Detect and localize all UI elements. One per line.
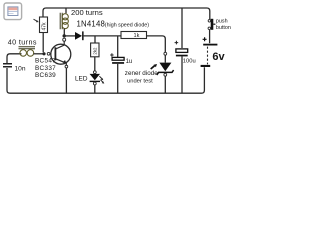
svg-text:LED: LED	[75, 76, 88, 83]
svg-text:BC639: BC639	[35, 72, 56, 79]
svg-text:10n: 10n	[15, 65, 26, 72]
svg-text:push: push	[216, 19, 228, 25]
svg-text:under test: under test	[127, 79, 153, 85]
svg-text:2k2: 2k2	[92, 47, 97, 55]
svg-text:BC337: BC337	[35, 65, 56, 72]
svg-text:47k: 47k	[42, 22, 48, 31]
svg-text:100u: 100u	[183, 58, 196, 64]
svg-text:1k: 1k	[134, 33, 140, 39]
svg-text:40 turns: 40 turns	[8, 37, 37, 46]
svg-text:200 turns: 200 turns	[71, 8, 103, 17]
svg-text:button: button	[216, 25, 231, 31]
svg-text:zener diode: zener diode	[125, 70, 158, 77]
svg-text:BC547: BC547	[35, 58, 56, 65]
svg-text:1N4148: 1N4148	[77, 20, 106, 29]
svg-text:6v: 6v	[212, 51, 225, 63]
svg-text:(high speed diode): (high speed diode)	[105, 22, 149, 28]
svg-text:1u: 1u	[126, 59, 133, 65]
